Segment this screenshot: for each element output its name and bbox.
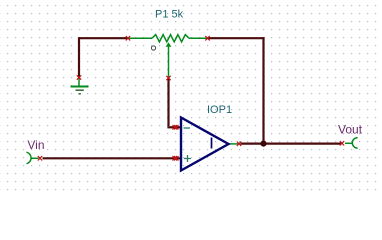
- svg-text:Vout: Vout: [338, 123, 363, 137]
- svg-text:Vin: Vin: [27, 138, 44, 152]
- svg-text:IOP1: IOP1: [207, 104, 232, 116]
- svg-text:P1 5k: P1 5k: [155, 9, 184, 21]
